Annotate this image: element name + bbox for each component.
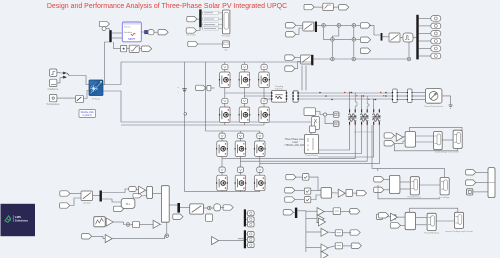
wire vertical right — [372, 125, 378, 168]
source block Irradiance ramp — [48, 79, 59, 91]
wire — [327, 114, 334, 116]
wire — [246, 212, 247, 214]
bus bar pulses 2 — [244, 230, 246, 248]
goto tag theta — [339, 5, 349, 10]
wire — [263, 69, 265, 72]
wire — [473, 191, 488, 193]
wire — [203, 207, 207, 209]
sum node — [331, 38, 335, 42]
gain 4 — [105, 235, 112, 243]
bus bar out — [177, 203, 180, 213]
svg-text:Solutions: Solutions — [15, 219, 29, 223]
wire — [416, 224, 428, 226]
wire — [306, 247, 321, 249]
wire — [224, 62, 226, 64]
MPPT controller MATLAB function block — [122, 22, 141, 42]
wire — [326, 24, 337, 26]
wire — [400, 37, 403, 39]
wire — [373, 100, 375, 110]
small tag — [113, 206, 123, 211]
sum node — [165, 234, 169, 238]
gain F6 — [321, 251, 328, 258]
wire — [238, 238, 244, 240]
wire — [396, 216, 405, 218]
wire — [92, 236, 106, 238]
mux tall — [161, 186, 169, 223]
coupling transformer block — [271, 86, 287, 102]
manual switch 2 — [76, 95, 84, 102]
junction circle — [323, 113, 326, 116]
svg-text:PV Array: PV Array — [92, 97, 101, 100]
sum node — [352, 38, 356, 42]
wire — [296, 28, 303, 34]
wire — [295, 62, 300, 69]
signal label lines — [202, 11, 223, 30]
scope D1 — [427, 213, 436, 230]
wire PV minus — [103, 90, 121, 92]
wire — [259, 156, 261, 167]
wire — [113, 221, 123, 223]
mux B — [405, 132, 415, 148]
from tag Pe2 — [285, 188, 295, 193]
gain 5 — [212, 237, 219, 245]
wire — [419, 184, 440, 186]
wire — [306, 210, 317, 212]
DC minus rail bridge2 — [185, 191, 260, 193]
wire — [57, 78, 67, 83]
bus bar F — [295, 208, 297, 218]
from tag D2 — [390, 223, 400, 228]
wire — [369, 25, 381, 35]
wire feedback C — [378, 168, 445, 177]
wire — [224, 87, 226, 98]
wire — [70, 193, 81, 195]
wire — [416, 217, 428, 219]
svg-text:to plot IV: to plot IV — [82, 114, 92, 117]
wire — [112, 236, 164, 239]
wire — [335, 38, 352, 40]
wire — [263, 87, 265, 98]
wire — [259, 138, 261, 141]
from tag G1 — [378, 213, 388, 218]
load feed line c — [318, 125, 373, 157]
wire — [324, 28, 331, 40]
three phase source block — [425, 89, 442, 104]
svg-text:PV scope: PV scope — [222, 36, 231, 38]
wire — [243, 122, 245, 125]
wire — [263, 103, 265, 107]
hysteresis block — [214, 204, 221, 211]
wire — [384, 189, 390, 191]
ground arrow — [449, 105, 453, 108]
THD block 1 — [333, 208, 340, 215]
line measurement block A — [304, 108, 316, 116]
display Vdc — [222, 41, 229, 52]
saturation block — [129, 45, 139, 52]
const block C — [467, 189, 473, 195]
IGBT top tag col2 — [241, 64, 247, 69]
PWM generator block — [403, 33, 413, 42]
abc to dq0 shunt — [81, 191, 93, 204]
wire — [139, 223, 153, 225]
PV array block — [89, 80, 103, 96]
three phase VI measurement — [292, 91, 299, 102]
wire — [311, 189, 321, 191]
svg-text:PLL: PLL — [126, 202, 131, 206]
wire phase b — [244, 95, 271, 97]
wire — [384, 178, 390, 180]
port block m1 — [333, 112, 339, 117]
dq0 to abc block — [389, 33, 400, 42]
series transformer a — [348, 109, 356, 125]
goto tag P — [356, 190, 366, 195]
wire — [367, 96, 369, 109]
wire — [341, 24, 352, 26]
wire — [353, 192, 358, 194]
wire — [400, 188, 410, 190]
wire — [412, 99, 426, 101]
wire — [239, 190, 241, 192]
wire — [419, 32, 431, 34]
wire — [412, 92, 426, 94]
sum node — [337, 24, 341, 28]
IGBT2 bot tag col2 — [237, 167, 243, 172]
wire — [259, 190, 261, 192]
abc to dq0 block 1 — [303, 22, 314, 31]
bus bar — [100, 191, 102, 202]
wire — [394, 135, 396, 138]
wire — [221, 190, 223, 192]
mean block — [346, 189, 353, 196]
goto tag Vd — [360, 23, 370, 28]
wire — [136, 188, 138, 191]
wire — [57, 97, 76, 99]
bus selector bar — [109, 30, 111, 42]
wire — [106, 29, 109, 31]
wire — [153, 192, 162, 194]
wire — [343, 245, 353, 247]
IGBT2 cell top col3 — [254, 141, 266, 157]
THD block 2 — [335, 230, 342, 236]
PLL block — [121, 198, 135, 208]
sum node — [352, 57, 356, 61]
pulse tag — [247, 222, 254, 227]
wire PV plus — [103, 84, 121, 86]
pulse tag — [247, 217, 254, 222]
out tag — [431, 16, 441, 22]
manual switch 1 — [62, 72, 69, 79]
load feed line a — [318, 125, 349, 150]
wire — [139, 48, 141, 50]
wire — [293, 211, 295, 213]
LMS Solution logo — [1, 204, 36, 236]
wire — [394, 141, 405, 143]
svg-text:<75KVA +10C,10%>: <75KVA +10C,10%> — [284, 144, 306, 147]
wire phase c — [264, 98, 272, 100]
wire — [313, 58, 330, 60]
three phase load block — [305, 135, 319, 158]
from tag duty2 — [196, 85, 206, 90]
wire — [397, 92, 408, 94]
const D — [377, 214, 383, 219]
wire feedback D — [410, 208, 458, 212]
wire — [419, 40, 431, 42]
relational block — [206, 214, 213, 221]
from tag Iabc — [60, 191, 70, 196]
wire — [343, 232, 352, 234]
wire — [333, 6, 338, 8]
wire — [400, 181, 410, 183]
svg-text:Irradiance: Irradiance — [48, 88, 59, 91]
wire — [416, 135, 434, 137]
red junction marks — [344, 92, 384, 100]
IGBT2 top tag col3 — [257, 133, 263, 138]
bus bar — [311, 55, 313, 66]
wire — [419, 25, 431, 27]
IGBT2 cell bot col3 — [254, 175, 266, 191]
wire — [224, 69, 226, 72]
wire — [206, 87, 207, 89]
three phase measurement 3 — [392, 89, 398, 103]
wire — [314, 6, 323, 8]
wire — [102, 199, 121, 202]
wire — [309, 177, 321, 190]
wire — [224, 103, 226, 107]
wire — [301, 66, 303, 91]
wire — [259, 172, 261, 176]
wire — [331, 42, 333, 57]
DC voltage measure — [184, 113, 187, 116]
IGBT2 cell bot col2 — [235, 175, 247, 191]
wire — [70, 198, 81, 206]
from tag B2 — [384, 141, 394, 146]
wire — [57, 72, 67, 74]
wire — [84, 91, 90, 99]
series transformer b — [360, 109, 368, 125]
RLC load label — [284, 138, 306, 147]
wire — [124, 222, 126, 225]
mux tall C — [488, 168, 495, 198]
DC rail bridge2 top — [206, 62, 260, 131]
pulse tag — [247, 232, 254, 237]
wire — [295, 57, 300, 59]
from tag PV1 — [187, 16, 197, 21]
wire — [397, 95, 408, 97]
wire — [311, 195, 321, 200]
mux thin — [147, 186, 153, 198]
from tag C2 — [374, 187, 384, 192]
from tag Vabc — [286, 23, 296, 28]
svg-text:Temperature: Temperature — [46, 103, 60, 106]
out tag — [431, 23, 441, 29]
svg-text:Vdc Power: Vdc Power — [186, 35, 196, 37]
wire — [314, 122, 316, 126]
gain F4 — [321, 228, 328, 236]
PV scope block — [222, 10, 231, 38]
junction dots — [319, 92, 387, 101]
from tag Vabc — [60, 203, 70, 208]
wire — [112, 32, 122, 34]
wire feedback — [410, 127, 463, 131]
sum node — [322, 24, 326, 28]
rate block — [148, 30, 154, 35]
wire — [344, 192, 347, 194]
wire — [239, 138, 241, 141]
THD block 3 — [335, 243, 342, 249]
pulse tag — [247, 237, 254, 242]
wire — [142, 195, 147, 198]
wire — [419, 48, 431, 50]
svg-text:Inductor: Inductor — [275, 87, 283, 90]
wire — [93, 195, 100, 197]
wire phase2 a — [222, 125, 355, 159]
wire — [295, 189, 305, 191]
from tag small — [133, 193, 142, 198]
svg-text:Enabled: Enabled — [124, 32, 133, 34]
svg-text:dist voltage: dist voltage — [438, 196, 450, 199]
wire — [353, 28, 355, 38]
wire — [221, 172, 223, 176]
wire — [310, 133, 312, 135]
bus bar pulses 1 — [244, 209, 246, 226]
rate transition block — [323, 3, 334, 10]
check block 3 — [304, 197, 310, 203]
wire — [306, 217, 317, 219]
svg-text:Plant/Filtering: Plant/Filtering — [407, 196, 421, 199]
gain 2 — [106, 218, 113, 226]
wire — [332, 28, 338, 38]
IGBT2 bot tag col1 — [219, 167, 225, 172]
svg-text:Three-Phase Source: Three-Phase Source — [424, 105, 444, 108]
wire — [332, 192, 339, 194]
wire — [316, 112, 324, 115]
wire — [442, 139, 453, 141]
wire — [221, 138, 223, 141]
gain 3 — [153, 220, 160, 228]
goto tag D — [158, 30, 168, 35]
from tag Vdc — [188, 41, 198, 46]
wire — [239, 131, 241, 133]
gain F1 — [317, 208, 324, 216]
wire — [317, 24, 321, 26]
wire — [442, 96, 451, 105]
svg-text:Design and Performance Analysi: Design and Performance Analysis of Three… — [47, 3, 287, 10]
wire — [212, 207, 214, 209]
check block 2 — [304, 188, 310, 194]
svg-text:abc-dq0: abc-dq0 — [83, 202, 91, 204]
from tag C3 — [466, 170, 476, 175]
wire — [243, 87, 245, 98]
wire — [401, 224, 406, 226]
gain E — [338, 189, 345, 197]
switch D — [391, 215, 396, 219]
scope B2 — [453, 130, 462, 148]
sum node — [208, 206, 212, 210]
wire — [166, 222, 168, 233]
clock — [102, 27, 106, 31]
wire — [130, 224, 132, 226]
wire — [328, 231, 335, 234]
wire — [105, 221, 106, 223]
wire — [383, 216, 391, 218]
sum node — [126, 223, 130, 227]
out tag — [431, 46, 441, 52]
out tag — [431, 53, 441, 59]
IGBT2 cell top col2 — [235, 141, 247, 157]
phase line a — [299, 92, 393, 94]
IGBT cell top col2 — [239, 72, 251, 88]
goto tag pulses — [223, 205, 233, 210]
svg-text:Power/Working: Power/Working — [424, 231, 440, 234]
wire — [397, 99, 408, 101]
gain block — [139, 186, 146, 194]
wire — [154, 31, 158, 33]
wire — [353, 42, 355, 57]
wire — [416, 141, 434, 143]
scope B1 — [434, 132, 443, 150]
wire — [403, 135, 405, 137]
wire — [160, 223, 161, 225]
wire — [246, 244, 247, 246]
from tag PV2 — [186, 28, 196, 33]
IGBT top tag col3 — [261, 64, 267, 69]
gain B — [396, 133, 403, 141]
wire — [296, 176, 303, 178]
wire phase2 c — [260, 125, 380, 164]
wire — [224, 122, 226, 125]
wire underpass C — [378, 185, 440, 199]
wire — [243, 103, 245, 107]
wire — [220, 206, 224, 208]
wire — [305, 66, 307, 91]
wire — [476, 171, 488, 173]
wire — [69, 76, 90, 85]
wire — [361, 96, 363, 109]
svg-text:Three-Phase: Three-Phase — [305, 154, 318, 157]
load meas small — [310, 126, 316, 133]
wire — [341, 210, 351, 212]
wire — [239, 172, 241, 176]
wire underpass B — [394, 143, 457, 151]
junction bus — [381, 33, 383, 41]
IGBT cell top col1 — [219, 72, 231, 88]
demux small — [207, 85, 211, 90]
out tag — [431, 38, 441, 44]
wire — [196, 27, 200, 31]
goto tag F3 — [351, 243, 361, 248]
wire — [243, 62, 245, 64]
wire phase2 b — [240, 125, 367, 161]
IGBT2 bot tag col3 — [257, 167, 263, 172]
IGBT cell bot col2 — [239, 107, 251, 123]
wire — [197, 18, 199, 20]
gain G — [391, 213, 398, 221]
wire — [413, 37, 416, 39]
wire — [356, 24, 360, 26]
goto tag F1 — [350, 209, 360, 214]
wire — [239, 156, 241, 167]
wire — [355, 93, 357, 110]
from tag Vref — [304, 4, 314, 9]
wire — [295, 199, 305, 201]
IGBT cell bot col3 — [258, 107, 270, 123]
abc to dq0 block 2 — [300, 55, 311, 64]
sum node — [407, 57, 411, 61]
wire — [412, 95, 426, 97]
IGBT bot tag col3 — [261, 98, 267, 103]
sum node — [352, 24, 356, 28]
from tag Vabc2 — [285, 55, 295, 60]
